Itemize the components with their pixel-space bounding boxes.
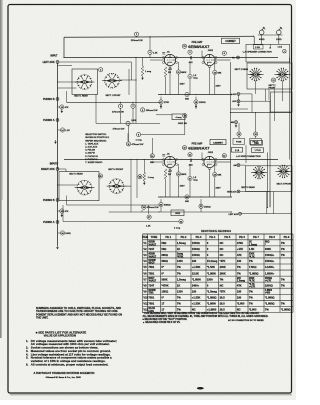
- resistor 680: [185, 92, 189, 96]
- wire right verticals: [269, 101, 271, 207]
- speaker terminal A: [259, 30, 264, 35]
- jack tape ch2: [237, 190, 240, 193]
- wire lower link ch2: [157, 219, 159, 221]
- svg-text:▲ MEASURED FROM PIN 3 OF V5.: ▲ MEASURED FROM PIN 3 OF V5.: [143, 321, 181, 324]
- callout on switch: [99, 68, 103, 72]
- svg-text:CABINET: CABINET: [225, 40, 236, 43]
- wire 1500 drop ch1: [195, 104, 197, 109]
- switch S1 rear wafer: [77, 75, 92, 90]
- wire C9 vertical ch1: [189, 62, 191, 74]
- svg-text:6EB8/6AX7: 6EB8/6AX7: [188, 146, 210, 151]
- svg-text:470K: 470K: [237, 241, 243, 245]
- svg-text:6BQ5: 6BQ5: [148, 262, 155, 264]
- svg-text:+1.8800: +1.8800: [207, 308, 217, 312]
- svg-text:1 meg: 1 meg: [148, 177, 155, 179]
- svg-text:TAPE AUX: TAPE AUX: [227, 190, 237, 193]
- ground bottom ch2: [57, 246, 59, 248]
- svg-text:7591: 7591: [148, 295, 154, 299]
- wire input to switch ch1: [58, 81, 78, 83]
- svg-text:7591: 7591: [148, 271, 154, 275]
- svg-text:SECT 1 REAR: SECT 1 REAR: [74, 95, 88, 98]
- capacitor .0022 ch2: [171, 210, 184, 216]
- svg-text:SECT 4 REAR: SECT 4 REAR: [69, 173, 83, 176]
- wire switch drop ch1: [128, 69, 130, 95]
- wire vol to amp: [96, 122, 160, 124]
- svg-text:28.5: 28.5: [220, 308, 226, 312]
- wire 1500 drop ch2: [200, 208, 202, 212]
- svg-text:*4.7K: *4.7K: [249, 280, 255, 283]
- svg-text:6EB8/: 6EB8/: [148, 242, 155, 244]
- svg-text:270K: 270K: [164, 102, 170, 104]
- jack am-fm ch2: [237, 164, 240, 167]
- svg-text:Pin 9: Pin 9: [284, 236, 290, 239]
- svg-text:NC: NC: [220, 253, 224, 257]
- svg-text:V3: V3: [143, 253, 147, 257]
- svg-text:15K: 15K: [150, 162, 154, 164]
- svg-text:4. AM-FM: 4. AM-FM: [85, 152, 95, 155]
- ground under L AUX: [238, 103, 240, 105]
- wire 3300 drop ch2: [160, 207, 162, 212]
- svg-text:6EB8/6AX7: 6EB8/6AX7: [188, 44, 210, 49]
- wire x137 drop: [136, 160, 138, 199]
- capacitor ch2 mid: [142, 205, 146, 209]
- svg-text:SECT 1 FRONT: SECT 1 FRONT: [106, 95, 122, 97]
- svg-text:1 GN: 1 GN: [255, 47, 260, 49]
- capacitor link ch2: [126, 142, 130, 146]
- capacitor C7: [137, 133, 141, 137]
- svg-text:6EB8/: 6EB8/: [148, 254, 155, 256]
- svg-text:L+R SPEAKER CONNECTION: L+R SPEAKER CONNECTION: [243, 51, 272, 54]
- switch S3 box: [246, 166, 292, 192]
- wire vol verticals ch1: [120, 102, 122, 104]
- svg-text:470mmf 1W: 470mmf 1W: [132, 144, 145, 146]
- svg-text:7247: 7247: [148, 247, 154, 251]
- svg-text:.0022: .0022: [208, 152, 214, 154]
- svg-text:*1.53K: *1.53K: [207, 265, 215, 269]
- svg-text:68K: 68K: [218, 73, 222, 75]
- resistor 680 ch2: [185, 195, 189, 199]
- left scan shadow: [0, 0, 2, 338]
- svg-text:28.5: 28.5: [220, 295, 226, 299]
- resistor 680K ch2: [176, 172, 180, 176]
- wire main B+ bus ch1: [64, 57, 278, 59]
- svg-text:SECT 3 REAR: SECT 3 REAR: [241, 186, 255, 189]
- wire 680K vertical ch2: [178, 176, 180, 197]
- wire rotary drops ch1: [255, 81, 257, 94]
- output box ch1: [246, 44, 290, 62]
- wire 680K vertical ch1: [178, 74, 180, 94]
- svg-text:Pin 6: Pin 6: [239, 236, 245, 239]
- wire x134 vertical: [135, 58, 137, 81]
- svg-text:0*: 0*: [161, 295, 163, 299]
- svg-text:15.2meg: 15.2meg: [207, 259, 218, 263]
- svg-text:FRONT: FRONT: [269, 88, 277, 90]
- svg-text:1500Ω: 1500Ω: [192, 253, 200, 257]
- capacitor C5b: [131, 104, 135, 108]
- svg-text:680Ω: 680Ω: [161, 253, 167, 257]
- wire sub bus ch2: [158, 196, 232, 198]
- svg-text:NC: NC: [220, 283, 224, 287]
- selector switch box ch1: [72, 69, 98, 94]
- resistor R2 1.2K: [60, 128, 64, 132]
- resistor 1500 ch2: [199, 204, 203, 208]
- jack aux2 ch1: [237, 100, 240, 103]
- svg-text:ITEM: ITEM: [142, 236, 148, 239]
- wire 68K vertical ch2: [214, 177, 216, 197]
- svg-text:2W: 2W: [168, 72, 171, 74]
- switch S2 rear: [254, 73, 257, 76]
- wire switch to grid ch1: [120, 79, 136, 81]
- svg-text:SHOWN IN POSITION 1: SHOWN IN POSITION 1: [85, 137, 110, 139]
- wire vertical x246 ch2: [245, 145, 247, 163]
- svg-text:7591: 7591: [148, 293, 154, 295]
- selector switch box ch2: [59, 172, 99, 201]
- svg-text:6007/: 6007/: [148, 278, 154, 280]
- svg-text:3300Ω: 3300Ω: [164, 205, 171, 207]
- wire v1b to right ch1: [215, 59, 230, 61]
- box 1 LB: [232, 148, 243, 153]
- wire below S3 box: [266, 192, 268, 214]
- svg-text:*470K: *470K: [177, 255, 184, 258]
- svg-text:4 meg: 4 meg: [174, 227, 181, 229]
- wire control bus ch1: [67, 101, 161, 103]
- svg-text:*1.880Ω: *1.880Ω: [265, 302, 275, 306]
- wire grid stub v1a: [150, 59, 164, 61]
- svg-text:6GW8/: 6GW8/: [148, 260, 156, 262]
- wire input to switch ch2: [58, 184, 78, 186]
- cabinet box ch1: [222, 38, 240, 43]
- svg-text:4 meg: 4 meg: [175, 117, 182, 119]
- tube V2A triode: [164, 156, 175, 167]
- svg-text:1500Ω: 1500Ω: [265, 278, 272, 280]
- svg-text:180: 180: [237, 259, 242, 263]
- svg-text:L AUX: L AUX: [231, 93, 237, 96]
- svg-text:180: 180: [192, 259, 197, 263]
- svg-text:*1.8800: *1.8800: [207, 302, 217, 306]
- cabinet box ch2: [210, 140, 226, 145]
- wire right border vertical: [291, 62, 293, 214]
- svg-text:560K: 560K: [161, 277, 167, 281]
- svg-text:RESISTANCE READINGS: RESISTANCE READINGS: [201, 229, 231, 233]
- svg-text:230K: 230K: [249, 254, 255, 256]
- wire tube bottoms ch1: [169, 67, 171, 95]
- svg-text:*2.800: *2.800: [249, 308, 257, 312]
- svg-text:47K: 47K: [65, 107, 69, 109]
- svg-text:1500Ω: 1500Ω: [199, 102, 206, 104]
- ground below R4: [142, 76, 144, 78]
- svg-text:1K: 1K: [177, 247, 180, 251]
- svg-text:V2: V2: [143, 247, 147, 251]
- jack bottom ch2: [239, 212, 242, 215]
- svg-text:1500: 1500: [207, 277, 213, 281]
- svg-text:100V: 100V: [180, 185, 186, 187]
- svg-text:*1.880Ω: *1.880Ω: [281, 308, 291, 312]
- svg-text:1 meg: 1 meg: [145, 71, 152, 73]
- wire input column full: [57, 135, 59, 169]
- svg-text:*1.8800: *1.8800: [192, 277, 202, 281]
- wire 270K drop ch1: [160, 104, 162, 109]
- svg-text:*47K: *47K: [220, 259, 226, 263]
- wire cathode to subbus ch2: [165, 179, 167, 197]
- svg-text:56Ω: 56Ω: [161, 241, 166, 245]
- svg-text:1K: 1K: [249, 242, 252, 244]
- svg-text:©Howard W. Sams & Co., Inc. 19: ©Howard W. Sams & Co., Inc. 1962: [46, 376, 82, 379]
- svg-text:Pin 3: Pin 3: [196, 236, 202, 239]
- wire lower link ch1: [141, 134, 185, 136]
- switch S2 box: [247, 63, 292, 89]
- svg-text:15KΩ: 15KΩ: [161, 289, 168, 293]
- svg-text:PHONO A: PHONO A: [43, 119, 55, 122]
- tube V1A triode: [164, 54, 175, 65]
- svg-text:1330: 1330: [177, 259, 183, 263]
- capacitor ch2 c9: [188, 176, 192, 180]
- wire speaker drops: [253, 36, 255, 44]
- svg-text:+1.53K: +1.53K: [192, 302, 201, 306]
- svg-text:1.2K: 1.2K: [65, 130, 70, 132]
- svg-text:*57K: *57K: [220, 289, 226, 293]
- box 1 TUN: [252, 148, 264, 153]
- svg-text:+4.7K: +4.7K: [249, 286, 256, 289]
- svg-text:+1.53K: +1.53K: [192, 265, 201, 269]
- capacitor .01 glyph: [162, 52, 165, 54]
- switch S1 front wafer: [105, 73, 120, 88]
- wire output right ch2: [231, 211, 233, 213]
- svg-text:7591: 7591: [148, 265, 154, 269]
- resistor 1.2K ch2: [60, 231, 64, 235]
- svg-text:.0022 1W: .0022 1W: [178, 123, 188, 125]
- svg-text:V5: V5: [143, 265, 147, 269]
- wire control bus ch2: [66, 196, 68, 206]
- tube V1B triode: [204, 54, 215, 65]
- svg-text:TUBE: TUBE: [151, 236, 158, 239]
- svg-text:1.5K: 1.5K: [153, 52, 158, 54]
- svg-text:NC: NC: [220, 247, 224, 251]
- svg-text:1500Ω: 1500Ω: [192, 247, 200, 251]
- svg-text:+47K: +47K: [237, 247, 243, 251]
- svg-text:47K: 47K: [237, 253, 242, 257]
- resistor cathode ch1: [164, 67, 167, 77]
- wire input to box ch1: [58, 64, 73, 66]
- svg-text:6GW8/: 6GW8/: [148, 290, 156, 292]
- volume control 100K ch1: [126, 121, 130, 125]
- wire vol to amp ch2: [109, 211, 160, 213]
- svg-text:7591: 7591: [148, 302, 154, 306]
- resistor R11 1500: [194, 100, 198, 104]
- svg-text:■ MEASURED ON THE “AUX” POSIT: ■ MEASURED ON THE “AUX” POSITION.: [143, 318, 188, 321]
- svg-text:*1.880Ω: *1.880Ω: [265, 295, 275, 299]
- svg-text:V8: V8: [143, 283, 147, 287]
- svg-text:2. AUX-AUX: 2. AUX-AUX: [85, 146, 98, 149]
- capacitor C11: [183, 114, 187, 118]
- svg-text:47K: 47K: [237, 283, 242, 287]
- capacitor C9: [188, 74, 192, 78]
- svg-text:V7: V7: [143, 277, 147, 281]
- wire lower bus ch2: [158, 211, 232, 213]
- svg-text:220mmf 1W: 220mmf 1W: [131, 40, 144, 42]
- svg-text:V4: V4: [143, 259, 147, 263]
- wire plate drop v2b: [201, 153, 203, 161]
- wire top-left drop: [63, 37, 65, 57]
- svg-text:1330: 1330: [177, 289, 183, 293]
- svg-text:5. PHONO B: 5. PHONO B: [85, 156, 98, 158]
- svg-text:+1.53K: +1.53K: [192, 295, 201, 299]
- svg-text:*2.800: *2.800: [237, 302, 245, 306]
- svg-text:7.5KΩ: 7.5KΩ: [249, 265, 257, 269]
- svg-text:* THIS READING WILL VARY IN R: * THIS READING WILL VARY IN READING UPON…: [143, 312, 260, 315]
- switch S2 front: [281, 73, 284, 76]
- svg-text:1.5meg: 1.5meg: [237, 281, 246, 283]
- svg-text:1meg: 1meg: [177, 254, 184, 256]
- wire cap11 vertical: [127, 133, 129, 141]
- resistor 68K ch2: [213, 172, 217, 176]
- resistor R6 680K: [176, 70, 180, 74]
- resistor 4 meg ch2: [179, 219, 183, 223]
- svg-text:680Ω: 680Ω: [161, 259, 167, 263]
- wire tube bottoms ch2: [169, 169, 171, 197]
- svg-text:INPUT: INPUT: [51, 56, 58, 58]
- svg-text:*470K: *470K: [161, 283, 168, 287]
- tube label 6EB8/6AX7: [182, 44, 186, 48]
- svg-text:LEFT AUX: LEFT AUX: [43, 61, 55, 64]
- resistor R10 270K: [159, 100, 163, 104]
- svg-text:1500Ω+: 1500Ω+: [265, 253, 275, 257]
- svg-text:AM: AM: [231, 121, 234, 124]
- svg-text:CABINET: CABINET: [213, 141, 223, 144]
- box 1500: [251, 141, 263, 146]
- svg-text:Pin 8: Pin 8: [269, 236, 275, 239]
- svg-text:THE UNIT.: THE UNIT.: [36, 316, 48, 320]
- arrow mark: [269, 46, 271, 48]
- switch S3 rear: [257, 171, 260, 174]
- svg-text:1K: 1K: [177, 283, 180, 287]
- svg-text:180: 180: [192, 289, 197, 293]
- svg-text:2200Ω: 2200Ω: [265, 283, 273, 287]
- svg-text:*1.5meg: *1.5meg: [207, 289, 217, 293]
- svg-text:47K: 47K: [65, 211, 69, 213]
- svg-text:.0022: .0022: [175, 213, 181, 215]
- svg-text:AM: AM: [234, 164, 237, 167]
- svg-text:100V: 100V: [180, 83, 186, 85]
- label 1 GN box: [254, 45, 264, 49]
- svg-text:PHONO A: PHONO A: [43, 221, 55, 224]
- svg-text:280K: 280K: [220, 271, 226, 275]
- svg-text:*1.880Ω: *1.880Ω: [207, 295, 217, 299]
- svg-text:1 meg: 1 meg: [136, 140, 143, 142]
- svg-text:1500Ω: 1500Ω: [204, 206, 211, 208]
- svg-text:1.5meg: 1.5meg: [249, 244, 258, 246]
- wire input column ch2: [57, 170, 59, 245]
- resistor R1 47K: [60, 105, 64, 109]
- svg-text:PHONO B: PHONO B: [43, 199, 55, 202]
- capacitor C3 on bus: [148, 50, 152, 54]
- svg-text:All controls at minimum, prope: All controls at minimum, proper output l…: [31, 362, 109, 366]
- svg-text:SECT 4 FRONT: SECT 4 FRONT: [108, 169, 124, 171]
- svg-text:V6: V6: [143, 271, 147, 275]
- svg-text:NC: NC: [192, 308, 196, 312]
- svg-text:NC: NC: [237, 308, 241, 312]
- wire sub bus ch1: [158, 94, 232, 96]
- svg-text:SELECTOR SWITCH: SELECTOR SWITCH: [85, 134, 106, 136]
- svg-text:1. TAPE-AUX: 1. TAPE-AUX: [85, 142, 99, 145]
- svg-text:RIGHT AUX: RIGHT AUX: [41, 168, 55, 171]
- resistor 47K ch2: [60, 209, 64, 213]
- svg-text:3. FM-AM: 3. FM-AM: [85, 149, 95, 152]
- wire plate drop v1b: [201, 51, 203, 59]
- capacitor C1 220mmf: [134, 32, 138, 36]
- svg-text:1.2K: 1.2K: [146, 225, 151, 227]
- svg-text:SECT 2 REAR: SECT 2 REAR: [235, 68, 249, 71]
- volume control ch2: [147, 215, 151, 219]
- ink smudge bottom: [197, 387, 204, 390]
- wire main bus ch2: [64, 159, 278, 161]
- resistor R8 68K: [213, 70, 217, 74]
- svg-text:AC NO CONNECTION DC T: AC NO CONNECTION DC TO WIRED: [228, 319, 264, 322]
- svg-text:PONENT REPLACEMENT AND MAY NOT: PONENT REPLACEMENT AND MAY NOT NECESSARI…: [36, 312, 122, 316]
- svg-text:*1.8800: *1.8800: [207, 271, 217, 275]
- svg-text:VALUE OR APPLICATION: VALUE OR APPLICATION: [44, 334, 76, 338]
- svg-text:0*: 0*: [161, 271, 163, 275]
- svg-text:1500Ω+: 1500Ω+: [265, 259, 275, 263]
- svg-text:230K: 230K: [249, 278, 255, 280]
- junction dots: [57, 81, 58, 82]
- svg-text:V9: V9: [143, 289, 147, 293]
- resistor R4 1 meg: [141, 66, 144, 76]
- svg-text:1.5meg: 1.5meg: [177, 277, 186, 281]
- svg-text:56Ω: 56Ω: [161, 247, 166, 251]
- wire switch to grid ch2: [126, 185, 132, 187]
- svg-text:LEFT AUX: LEFT AUX: [229, 213, 239, 216]
- svg-text:28.5: 28.5: [220, 302, 226, 306]
- svg-text:1.5meg: 1.5meg: [177, 241, 186, 245]
- svg-text:470mmf 1W: 470mmf 1W: [113, 129, 126, 131]
- wire vertical x267 ch2: [267, 152, 269, 207]
- svg-text:SECT 3 FRONT: SECT 3 FRONT: [277, 183, 293, 185]
- svg-text:230V: 230V: [216, 188, 222, 190]
- jack TAPE ch1: [237, 56, 240, 59]
- svg-text:A PHOTOFACT STANDARD NOTATION: A PHOTOFACT STANDARD NOTATION SCHEMATIC: [34, 372, 95, 375]
- svg-text:Pin 1: Pin 1: [165, 236, 171, 239]
- switch S4 rear wafer: [77, 180, 92, 195]
- capacitor 150mmf mid: [141, 108, 145, 112]
- svg-text:6.: 6.: [26, 362, 29, 366]
- svg-text:1 TUN: 1 TUN: [255, 150, 261, 152]
- svg-text:7. SLEEP-RADIO: 7. SLEEP-RADIO: [85, 161, 102, 164]
- svg-text:185: 185: [237, 289, 242, 293]
- wire cathode to subbus ch1: [165, 77, 167, 95]
- svg-text:V1: V1: [143, 241, 147, 245]
- capacitor .01 glyph ch2: [162, 154, 165, 156]
- svg-text:150mmf 1W: 150mmf 1W: [146, 110, 159, 112]
- wire input column ch1: [57, 63, 59, 135]
- svg-text:Pin 7: Pin 7: [253, 236, 259, 239]
- box right mid: [271, 92, 293, 112]
- wire grid stub v2a: [150, 161, 164, 163]
- svg-text:0*: 0*: [161, 265, 163, 269]
- svg-text:15.8K: 15.8K: [192, 271, 199, 275]
- svg-text:*: *: [265, 244, 266, 246]
- svg-text:470mmf 1W: 470mmf 1W: [112, 111, 125, 113]
- capacitor between channels: [150, 154, 154, 158]
- svg-text:2W: 2W: [168, 174, 171, 176]
- svg-text:ALL MEASUREMENTS MADE IN CHANN: ALL MEASUREMENTS MADE IN CHANNEL #1, TUB…: [143, 315, 269, 318]
- wire input to box ch2: [58, 168, 67, 170]
- wire output right ch1: [231, 108, 249, 110]
- wire right links ch2: [240, 164, 246, 166]
- ground between channels: [55, 140, 57, 142]
- tube V2B triode: [204, 156, 215, 167]
- box 4 meg: [172, 114, 185, 120]
- svg-text:*4.7K: *4.7K: [249, 255, 255, 258]
